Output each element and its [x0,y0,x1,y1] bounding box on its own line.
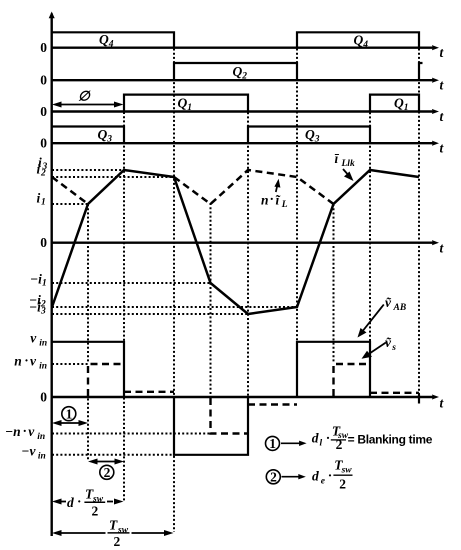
svg-text:s: s [391,343,396,353]
svg-text:·: · [23,424,28,439]
svg-text:AB: AB [393,303,407,313]
svg-text:v: v [30,331,37,346]
svg-text:= Blanking time: = Blanking time [348,433,433,447]
svg-text:−i: −i [29,299,41,314]
svg-text:0: 0 [40,104,47,119]
svg-text:T: T [109,518,118,533]
svg-text:1: 1 [41,197,46,207]
svg-text:2: 2 [92,504,99,519]
svg-text:in: in [39,361,47,371]
svg-text:·: · [77,494,82,509]
svg-text:Q: Q [233,64,243,79]
svg-text:n: n [14,353,22,368]
svg-text:4: 4 [108,40,114,50]
svg-text:1: 1 [187,103,192,113]
svg-text:v: v [30,353,37,368]
svg-text:Q: Q [98,127,108,142]
svg-text:d: d [312,469,319,484]
svg-text:0: 0 [40,390,47,405]
svg-text:0: 0 [40,136,47,151]
svg-text:i: i [37,161,41,176]
svg-text:2: 2 [241,72,247,82]
svg-text:2: 2 [40,168,46,178]
svg-text:0: 0 [40,40,47,55]
svg-text:l: l [320,438,323,448]
svg-text:Q: Q [354,33,364,48]
svg-text:4: 4 [362,40,368,50]
svg-text:−n: −n [5,424,21,439]
svg-text:L: L [281,200,288,210]
svg-text:·: · [270,192,275,207]
svg-text:2: 2 [104,465,111,480]
svg-text:Q: Q [99,32,109,47]
svg-text:1: 1 [269,436,276,451]
svg-text:1: 1 [42,278,47,288]
svg-text:d: d [312,431,319,446]
svg-text:−v: −v [21,443,36,458]
svg-text:Llk: Llk [341,159,355,169]
svg-text:·: · [326,430,331,445]
svg-text:0: 0 [40,235,47,250]
svg-text:2: 2 [339,477,346,492]
svg-text:1: 1 [66,406,73,421]
svg-text:Q: Q [178,96,188,111]
svg-text:2: 2 [270,469,277,484]
svg-text:v: v [28,424,35,439]
svg-text:in: in [37,432,45,442]
svg-text:1: 1 [404,103,409,113]
svg-text:·: · [328,468,333,483]
svg-text:0: 0 [40,73,47,88]
svg-text:Q: Q [305,127,315,142]
svg-text:3: 3 [40,306,46,316]
svg-text:ṽ: ṽ [385,335,392,350]
svg-text:Q: Q [394,96,404,111]
svg-text:sw: sw [341,465,353,475]
svg-text:−i: −i [30,271,42,286]
svg-text:3: 3 [106,135,112,145]
svg-text:in: in [39,339,47,349]
svg-text:i: i [37,190,41,205]
svg-text:in: in [38,451,46,461]
svg-text:3: 3 [314,135,320,145]
svg-text:2: 2 [114,534,121,549]
svg-text:ṽ: ṽ [385,295,392,310]
svg-text:·: · [24,353,29,368]
svg-text:d: d [67,495,74,510]
svg-text:∅: ∅ [78,89,91,104]
svg-text:n: n [261,193,269,208]
svg-text:2: 2 [336,437,343,452]
